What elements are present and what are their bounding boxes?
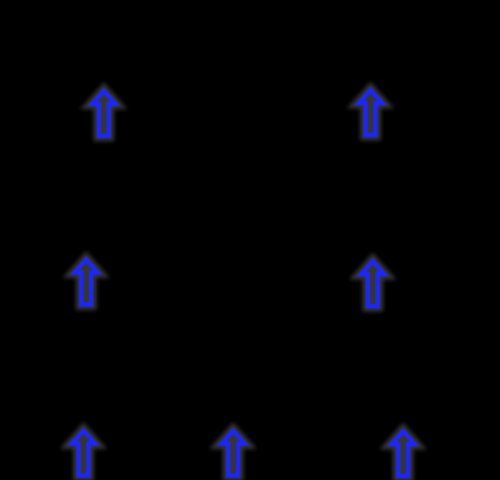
arrow 7 (bottom-right) — [392, 431, 415, 476]
arrow 3 (middle-left) — [75, 260, 98, 305]
arrow 1 (top-left) halo — [92, 91, 115, 136]
arrow 3 (middle-left) halo — [75, 260, 98, 305]
arrow 4 (middle-right) halo — [361, 261, 384, 306]
arrow 4 (middle-right) — [361, 261, 384, 306]
arrow 7 (bottom-right) halo — [392, 431, 415, 476]
arrow 6 (bottom-center) halo — [222, 431, 245, 476]
arrow 2 (top-right) halo — [359, 90, 382, 135]
arrow 6 (bottom-center) — [222, 431, 245, 476]
arrow 1 (top-left) — [92, 91, 115, 136]
arrow 5 (bottom-left) — [72, 431, 95, 476]
arrow 2 (top-right) — [359, 90, 382, 135]
arrow 5 (bottom-left) halo — [72, 431, 95, 476]
